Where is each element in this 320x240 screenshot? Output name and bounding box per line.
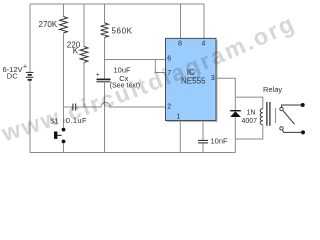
IC U1 NE555 shadow [167,40,218,122]
wire 270K branch top [63,4,65,17]
svg-text:2: 2 [167,104,171,111]
wire pin6 node [105,59,166,61]
wire pin1 to ground [179,121,181,153]
wire left rail (above battery) [29,4,31,72]
svg-text:1: 1 [177,113,181,120]
relay core bar 2 [269,102,271,126]
resistor R1 270K zigzag [60,17,68,34]
wire 10nF branch top [202,121,204,141]
relay contact pivot upper [280,107,283,110]
svg-text:270K: 270K [39,20,58,29]
wire left rail (below battery) [29,80,31,152]
wire 560K bottom to Cx node [104,38,106,79]
wire 10nF bottom [202,143,204,152]
wire pin3 out [216,78,235,110]
relay terminal dot lower [301,130,305,134]
svg-text:DC: DC [7,71,18,80]
svg-text:8: 8 [178,41,182,48]
relay armature line [275,108,277,123]
switch S1 actuator [57,134,61,136]
switch S1 contact dot top [62,128,66,132]
svg-text:3: 3 [211,75,215,82]
resistor R2 220K zigzag [80,47,88,63]
wire bottom rail [30,152,235,154]
wire contact upper terminal [282,105,302,107]
wire contact lower terminal [282,130,301,132]
wire 270K bottom to trigger node [63,33,65,107]
svg-text:4: 4 [202,41,206,48]
diode D1 1N4007 [230,111,241,117]
wire S1 bottom [63,143,65,152]
svg-text:Relay: Relay [263,85,282,94]
battery B1 plates [26,72,34,79]
wire pin4 corner [203,4,205,38]
wire pin7 jumper [155,60,165,73]
svg-text:10nF: 10nF [211,137,229,146]
wire relay coil bottom [235,125,262,139]
svg-text:1N: 1N [247,110,256,117]
capacitor Cx plates [97,79,111,81]
relay contact arm [283,111,295,125]
resistor R3 560K zigzag [101,23,109,38]
wire Cx bottom to ground [104,82,106,152]
wire diode to ground [234,117,236,153]
inductor relay coil bumps [260,109,263,125]
relay terminal dot upper [301,103,305,107]
svg-text:+: + [96,72,100,79]
wire 220K branch top [83,4,85,47]
capacitor C2 0.1uF plates [73,104,76,111]
relay core bar 1 [266,102,268,126]
wire 220K bottom to trigger node [83,63,85,108]
wire relay coil top [235,97,262,109]
wire pin8 [180,4,182,38]
wire trigger left [64,106,73,108]
wire S1 top [63,107,65,128]
capacitor C3 10nF plates [198,140,208,143]
wire top rail [30,3,204,5]
svg-text:560K: 560K [112,27,133,36]
switch S1 contact dot bottom [62,140,66,144]
relay contact pivot lower [280,127,283,130]
wire 560K branch top [104,4,106,23]
wire trigger mid with hop [76,102,166,107]
switch S1 button bar [54,132,57,139]
svg-text:+: + [23,64,27,71]
svg-text:4007: 4007 [242,118,258,125]
svg-text:K: K [73,46,79,55]
IC U1 NE555 body [166,38,217,120]
